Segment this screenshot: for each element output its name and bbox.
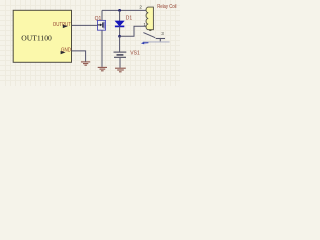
contact net stub (light) <box>143 41 170 43</box>
pin OUTPUT arrow marker <box>63 25 68 29</box>
IC U1 body OUT1100 <box>13 10 71 62</box>
diode D1 <box>115 10 124 36</box>
transistor Q1 <box>98 20 106 30</box>
battery VS1 <box>114 36 127 67</box>
blue arrow marker <box>141 42 149 45</box>
ground (battery minus) <box>115 68 126 72</box>
wire OUTPUT pin to Q1 <box>72 24 98 26</box>
wire GND pin to ground <box>72 51 86 62</box>
svg-text:1: 1 <box>143 22 146 27</box>
wire top rail to relay coil <box>102 9 148 11</box>
relay coil K1 <box>146 7 153 30</box>
wire junction to coil pin 1 <box>120 26 148 36</box>
svg-text:Relay Coil: Relay Coil <box>157 4 176 10</box>
svg-text:3: 3 <box>161 31 164 36</box>
junction bottom <box>118 35 121 38</box>
svg-text:VS1: VS1 <box>130 50 140 56</box>
ground (Q1 emitter) <box>98 67 107 70</box>
svg-text:OUT1100: OUT1100 <box>21 34 52 43</box>
svg-text:D1: D1 <box>126 15 133 21</box>
relay contact armature <box>143 33 155 38</box>
sheet background <box>0 0 180 86</box>
relay coil bottom pin nub <box>149 30 151 31</box>
svg-text:OUTPUT: OUTPUT <box>53 22 72 28</box>
pin GND arrow marker <box>61 51 66 54</box>
ground (IC GND) <box>81 62 90 65</box>
svg-text:Q1: Q1 <box>95 16 102 22</box>
wire Q1 emitter down to ground <box>101 30 103 67</box>
wire Q1 collector up <box>101 10 103 20</box>
relay contact terminal <box>156 39 165 42</box>
junction top <box>118 9 121 12</box>
svg-text:2: 2 <box>139 5 142 10</box>
